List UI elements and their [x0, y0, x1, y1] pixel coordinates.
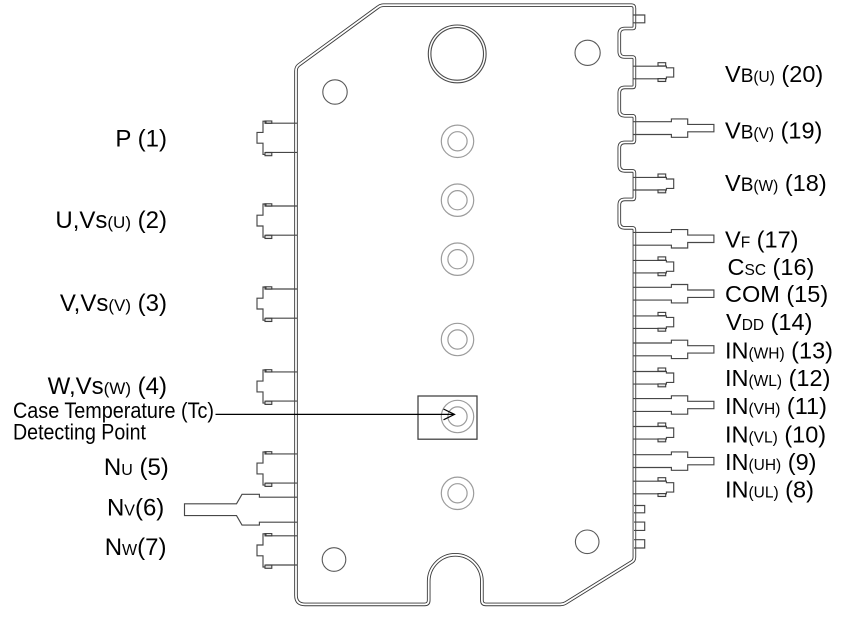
svg-text:Detecting Point: Detecting Point [13, 419, 147, 444]
svg-text:COM (15): COM (15) [725, 281, 828, 307]
svg-text:VF (17): VF (17) [725, 227, 798, 253]
svg-text:NV(6): NV(6) [107, 495, 164, 522]
svg-text:VB(U) (20): VB(U) (20) [725, 61, 823, 87]
svg-text:VB(V) (19): VB(V) (19) [725, 117, 822, 143]
svg-text:P (1): P (1) [115, 126, 167, 153]
svg-text:NU (5): NU (5) [104, 454, 169, 481]
svg-text:VDD (14): VDD (14) [726, 309, 812, 335]
svg-text:CSC (16): CSC (16) [728, 254, 815, 280]
